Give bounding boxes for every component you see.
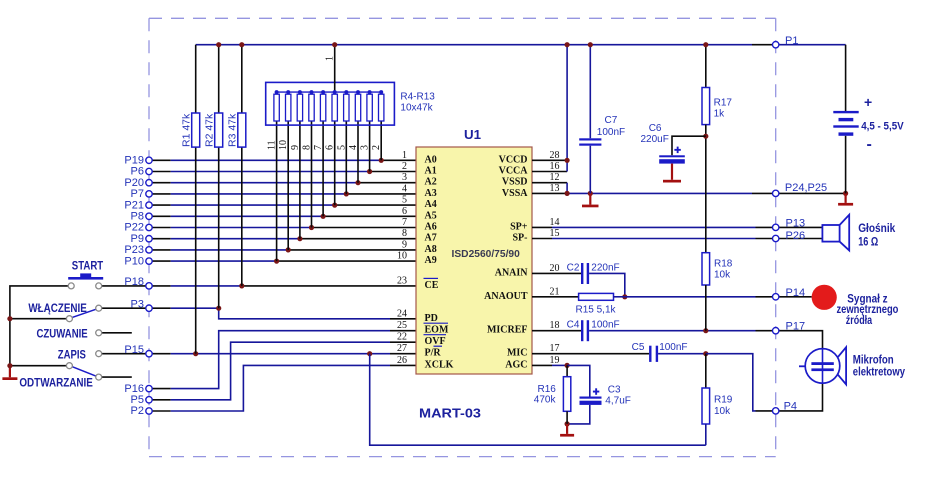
svg-text:AGC: AGC — [505, 359, 527, 370]
svg-text:R16: R16 — [538, 384, 557, 395]
svg-text:19: 19 — [550, 355, 560, 366]
svg-text:VSSA: VSSA — [502, 188, 528, 199]
svg-text:23: 23 — [397, 275, 407, 286]
svg-text:P26: P26 — [786, 230, 806, 242]
svg-text:11: 11 — [267, 140, 278, 150]
svg-text:P15: P15 — [124, 344, 144, 356]
svg-text:10k: 10k — [714, 406, 731, 417]
svg-text:4: 4 — [348, 145, 359, 150]
svg-text:P20: P20 — [124, 177, 144, 189]
svg-text:PD: PD — [425, 313, 438, 324]
svg-text:1: 1 — [402, 150, 407, 161]
svg-text:7: 7 — [402, 217, 407, 228]
svg-text:13: 13 — [550, 183, 560, 194]
svg-text:SP+: SP+ — [510, 221, 528, 232]
svg-text:15: 15 — [550, 228, 560, 239]
svg-text:ZAPIS: ZAPIS — [58, 347, 86, 361]
svg-text:VCCD: VCCD — [499, 154, 528, 165]
svg-text:OVF: OVF — [425, 336, 446, 347]
svg-text:Głośnik: Głośnik — [858, 221, 895, 235]
svg-text:P10: P10 — [124, 255, 144, 267]
svg-text:P9: P9 — [131, 233, 144, 245]
svg-text:16: 16 — [550, 161, 560, 172]
svg-text:100nF: 100nF — [591, 320, 619, 331]
svg-text:+: + — [864, 94, 872, 110]
svg-text:28: 28 — [550, 150, 560, 161]
svg-text:WŁĄCZENIE: WŁĄCZENIE — [28, 301, 86, 315]
svg-text:26: 26 — [397, 355, 407, 366]
svg-text:P22: P22 — [124, 222, 144, 234]
svg-text:A0: A0 — [425, 154, 437, 165]
svg-text:P7: P7 — [131, 188, 144, 200]
svg-text:A1: A1 — [425, 166, 437, 177]
svg-text:10: 10 — [278, 140, 289, 150]
svg-text:4,7uF: 4,7uF — [605, 396, 631, 407]
svg-text:4,5 - 5,5V: 4,5 - 5,5V — [861, 121, 904, 133]
svg-text:C5: C5 — [632, 342, 645, 353]
svg-text:C3: C3 — [608, 385, 621, 396]
svg-text:A5: A5 — [425, 210, 437, 221]
svg-text:12: 12 — [550, 172, 560, 183]
svg-text:16 Ω: 16 Ω — [858, 234, 878, 248]
svg-text:ANAOUT: ANAOUT — [484, 291, 528, 302]
svg-text:R4-R13: R4-R13 — [400, 92, 435, 103]
svg-text:A4: A4 — [425, 199, 437, 210]
svg-text:P6: P6 — [131, 166, 144, 178]
svg-text:P8: P8 — [131, 211, 144, 223]
svg-text:R2 47k: R2 47k — [204, 113, 216, 147]
svg-text:ODTWARZANIE: ODTWARZANIE — [19, 376, 92, 390]
svg-text:A7: A7 — [425, 233, 437, 244]
svg-text:-: - — [867, 136, 872, 153]
svg-text:C4: C4 — [567, 320, 580, 331]
svg-text:6: 6 — [402, 206, 407, 217]
svg-text:9: 9 — [402, 239, 407, 250]
svg-text:P3: P3 — [131, 298, 144, 310]
svg-text:R3 47k: R3 47k — [227, 113, 239, 147]
svg-text:C7: C7 — [605, 115, 618, 126]
svg-text:27: 27 — [397, 343, 407, 354]
svg-text:P13: P13 — [786, 217, 806, 229]
svg-text:R18: R18 — [714, 259, 733, 270]
svg-text:3: 3 — [360, 145, 371, 150]
svg-text:XCLK: XCLK — [425, 359, 454, 370]
svg-text:źródła: źródła — [846, 313, 873, 327]
svg-text:P14: P14 — [786, 287, 806, 299]
svg-text:20: 20 — [550, 263, 560, 274]
svg-text:P21: P21 — [124, 199, 144, 211]
svg-text:VCCA: VCCA — [499, 166, 529, 177]
svg-text:18: 18 — [550, 320, 560, 331]
svg-text:A9: A9 — [425, 255, 437, 266]
svg-text:17: 17 — [550, 343, 560, 354]
svg-text:P17: P17 — [786, 321, 806, 333]
svg-text:C2: C2 — [567, 263, 580, 274]
svg-text:SP-: SP- — [513, 233, 528, 244]
svg-text:8: 8 — [302, 145, 313, 150]
svg-text:5: 5 — [402, 195, 407, 206]
svg-text:14: 14 — [550, 217, 560, 228]
svg-text:A2: A2 — [425, 177, 437, 188]
svg-text:VSSD: VSSD — [502, 177, 528, 188]
svg-text:1: 1 — [325, 56, 336, 61]
svg-text:100nF: 100nF — [659, 342, 687, 353]
svg-text:MIC: MIC — [507, 348, 528, 359]
svg-text:25: 25 — [397, 320, 407, 331]
svg-text:MART-03: MART-03 — [419, 406, 481, 421]
svg-text:10x47k: 10x47k — [400, 103, 433, 114]
svg-text:R17: R17 — [714, 98, 733, 109]
svg-text:ISD2560/75/90: ISD2560/75/90 — [452, 248, 520, 260]
svg-text:3: 3 — [402, 172, 407, 183]
svg-text:9: 9 — [290, 145, 301, 150]
svg-text:ANAIN: ANAIN — [495, 267, 529, 278]
svg-text:elektretowy: elektretowy — [853, 365, 905, 379]
svg-text:P2: P2 — [131, 405, 144, 417]
svg-text:P24,P25: P24,P25 — [785, 182, 827, 194]
svg-text:EOM: EOM — [425, 325, 449, 336]
svg-text:A8: A8 — [425, 244, 437, 255]
svg-text:C6: C6 — [649, 123, 662, 134]
svg-text:22: 22 — [397, 332, 407, 343]
svg-text:24: 24 — [397, 308, 407, 319]
svg-text:220uF: 220uF — [641, 134, 669, 145]
svg-text:220nF: 220nF — [591, 263, 619, 274]
svg-text:R19: R19 — [714, 395, 733, 406]
svg-text:2: 2 — [402, 161, 407, 172]
svg-text:R15 5,1k: R15 5,1k — [576, 305, 617, 316]
svg-text:P5: P5 — [131, 394, 144, 406]
svg-text:P16: P16 — [124, 383, 144, 395]
svg-text:10: 10 — [397, 251, 407, 262]
svg-text:P/R: P/R — [425, 348, 442, 359]
svg-text:100nF: 100nF — [597, 127, 625, 138]
svg-text:10k: 10k — [714, 270, 731, 281]
svg-text:P23: P23 — [124, 244, 144, 256]
svg-text:7: 7 — [313, 145, 324, 150]
svg-text:R1 47k: R1 47k — [181, 113, 193, 147]
svg-text:6: 6 — [325, 145, 336, 150]
svg-text:1k: 1k — [714, 109, 726, 120]
svg-text:4: 4 — [402, 183, 407, 194]
svg-text:P4: P4 — [784, 400, 797, 412]
svg-text:A3: A3 — [425, 188, 437, 199]
svg-text:MICREF: MICREF — [487, 325, 528, 336]
svg-text:U1: U1 — [464, 128, 481, 142]
svg-text:CZUWANIE: CZUWANIE — [37, 326, 88, 340]
svg-text:A6: A6 — [425, 222, 437, 233]
svg-text:P1: P1 — [785, 35, 798, 47]
svg-text:8: 8 — [402, 228, 407, 239]
svg-text:2: 2 — [371, 145, 382, 150]
svg-text:P18: P18 — [124, 276, 144, 288]
svg-text:470k: 470k — [534, 395, 557, 406]
svg-text:5: 5 — [336, 145, 347, 150]
svg-text:21: 21 — [550, 286, 560, 297]
svg-text:CE: CE — [425, 280, 439, 291]
svg-text:START: START — [72, 259, 104, 273]
svg-text:P19: P19 — [124, 155, 144, 167]
